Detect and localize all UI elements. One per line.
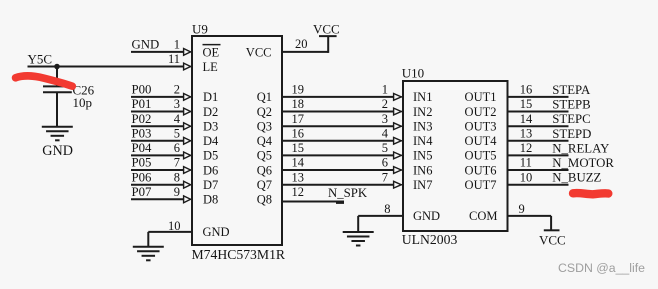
svg-text:15: 15 — [292, 141, 305, 155]
svg-text:4: 4 — [382, 126, 389, 140]
svg-text:GND: GND — [413, 209, 440, 223]
wire U9 pin 15 — [282, 154, 394, 156]
svg-text:10: 10 — [520, 170, 533, 184]
svg-text:D3: D3 — [203, 120, 218, 134]
U10 pin 7 arrow — [394, 181, 402, 188]
svg-text:N_RELAY: N_RELAY — [552, 141, 609, 155]
wire U10 pin 16 / net STEPA — [508, 96, 569, 98]
svg-text:GND: GND — [42, 143, 73, 159]
svg-text:D7: D7 — [203, 178, 218, 192]
U10 pin 5 arrow — [394, 152, 402, 159]
svg-text:6: 6 — [174, 141, 180, 155]
svg-text:IN5: IN5 — [413, 149, 432, 163]
svg-text:N_MOTOR: N_MOTOR — [552, 156, 614, 170]
svg-text:P06: P06 — [132, 170, 153, 184]
wire U9 pin 13 — [282, 184, 394, 186]
svg-text:9: 9 — [174, 185, 180, 199]
svg-text:5: 5 — [382, 141, 388, 155]
svg-text:Q1: Q1 — [257, 90, 272, 104]
svg-text:16: 16 — [520, 83, 533, 97]
capacitor C26 — [56, 67, 58, 86]
svg-text:D2: D2 — [203, 105, 218, 119]
svg-text:D8: D8 — [203, 193, 218, 207]
svg-text:17: 17 — [292, 112, 305, 126]
svg-text:12: 12 — [292, 185, 305, 199]
svg-text:14: 14 — [520, 112, 533, 126]
svg-text:8: 8 — [174, 170, 180, 184]
svg-text:P01: P01 — [132, 97, 152, 111]
red annotation scribble over Y5C/C26 — [16, 76, 73, 86]
svg-text:OUT3: OUT3 — [465, 120, 497, 134]
wire U9 pin 17 — [282, 125, 394, 127]
svg-text:11: 11 — [168, 52, 180, 66]
svg-text:D6: D6 — [203, 163, 218, 177]
svg-text:18: 18 — [292, 97, 305, 111]
svg-text:4: 4 — [174, 112, 181, 126]
wire U9 pin 14 — [282, 169, 394, 171]
svg-text:5: 5 — [174, 126, 180, 140]
svg-text:VCC: VCC — [539, 232, 566, 247]
svg-text:6: 6 — [382, 156, 388, 170]
svg-text:7: 7 — [382, 170, 388, 184]
ground (U10 pin 8) — [343, 231, 374, 233]
svg-text:20: 20 — [295, 37, 308, 51]
svg-text:1: 1 — [174, 37, 180, 51]
svg-text:11: 11 — [520, 156, 532, 170]
U10 pin 1 arrow — [394, 94, 402, 101]
wire U10 pin 14 / net STEPC — [508, 125, 569, 127]
svg-text:P00: P00 — [132, 83, 152, 97]
svg-text:IN4: IN4 — [413, 134, 433, 148]
svg-text:14: 14 — [292, 156, 305, 170]
svg-text:13: 13 — [520, 126, 533, 140]
svg-text:15: 15 — [520, 97, 533, 111]
svg-text:P03: P03 — [132, 126, 152, 140]
svg-text:9: 9 — [519, 202, 525, 216]
wire U9 pin 19 — [282, 96, 394, 98]
svg-text:7: 7 — [174, 156, 180, 170]
svg-text:Q2: Q2 — [257, 105, 272, 119]
svg-text:IN6: IN6 — [413, 163, 432, 177]
svg-text:LE: LE — [203, 60, 219, 74]
svg-text:D4: D4 — [203, 134, 219, 148]
svg-text:STEPC: STEPC — [552, 112, 590, 126]
svg-text:N_BUZZ: N_BUZZ — [552, 171, 601, 185]
wire U10 pin 11 / net N_MOTOR — [508, 169, 569, 171]
svg-text:19: 19 — [292, 83, 305, 97]
wire Y5C to U9 pin 11 — [28, 66, 184, 68]
svg-text:STEPB: STEPB — [552, 98, 590, 112]
svg-text:8: 8 — [384, 202, 390, 216]
svg-text:P05: P05 — [132, 156, 152, 170]
wire U10 pin 15 / net STEPB — [508, 111, 569, 113]
svg-text:OUT4: OUT4 — [465, 134, 498, 148]
svg-text:U10: U10 — [402, 65, 424, 80]
svg-text:Q6: Q6 — [257, 163, 272, 177]
svg-text:VCC: VCC — [313, 21, 340, 36]
svg-text:IN7: IN7 — [413, 178, 432, 192]
svg-text:OUT1: OUT1 — [465, 90, 497, 104]
svg-text:D1: D1 — [203, 90, 218, 104]
U10 pin 4 arrow — [394, 137, 402, 144]
svg-text:P07: P07 — [132, 185, 153, 199]
svg-text:P04: P04 — [132, 141, 153, 155]
svg-text:IN2: IN2 — [413, 105, 432, 119]
svg-text:Q7: Q7 — [257, 178, 272, 192]
junction on Y5C net — [54, 64, 60, 70]
svg-text:COM: COM — [469, 209, 497, 223]
svg-text:Y5C: Y5C — [28, 52, 53, 67]
svg-text:12: 12 — [520, 141, 533, 155]
svg-text:Q4: Q4 — [257, 134, 273, 148]
svg-text:2: 2 — [174, 83, 180, 97]
ground (U9 pin 10) — [133, 246, 164, 248]
svg-text:16: 16 — [292, 126, 305, 140]
power VCC (top) — [319, 35, 337, 37]
ground (C26) — [42, 126, 73, 128]
svg-text:STEPD: STEPD — [552, 127, 591, 141]
svg-text:M74HC573M1R: M74HC573M1R — [192, 247, 286, 262]
svg-text:Q3: Q3 — [257, 120, 272, 134]
red annotation scribble under N_BUZZ — [573, 193, 608, 194]
power VCC (bottom right) — [544, 229, 560, 231]
svg-text:OUT2: OUT2 — [465, 105, 497, 119]
svg-text:VCC: VCC — [246, 45, 272, 59]
svg-text:3: 3 — [174, 97, 180, 111]
svg-text:1: 1 — [382, 83, 388, 97]
svg-text:10: 10 — [168, 219, 181, 233]
svg-text:Q5: Q5 — [257, 149, 272, 163]
svg-text:GND: GND — [132, 37, 160, 51]
svg-text:D5: D5 — [203, 149, 218, 163]
svg-text:IN3: IN3 — [413, 120, 432, 134]
wire U10 pin 10 / net N_BUZZ — [508, 184, 569, 186]
svg-text:IN1: IN1 — [413, 90, 432, 104]
svg-text:3: 3 — [382, 112, 388, 126]
wire U10 pin 12 / net N_RELAY — [508, 154, 569, 156]
pin 1 wire — [131, 51, 184, 53]
svg-text:U9: U9 — [192, 21, 208, 36]
svg-text:Q8: Q8 — [257, 193, 272, 207]
svg-text:STEPA: STEPA — [552, 83, 591, 97]
svg-text:ULN2003: ULN2003 — [402, 232, 458, 247]
U10 pin 6 arrow — [394, 167, 402, 174]
svg-text:GND: GND — [203, 225, 230, 239]
wire U9 pin 18 — [282, 111, 394, 113]
svg-text:OUT7: OUT7 — [465, 178, 497, 192]
svg-text:13: 13 — [292, 170, 305, 184]
svg-text:P02: P02 — [132, 112, 152, 126]
svg-text:2: 2 — [382, 97, 388, 111]
wire U10 pin 13 / net STEPD — [508, 140, 569, 142]
U10 pin 2 arrow — [394, 108, 402, 115]
svg-text:OUT5: OUT5 — [465, 149, 497, 163]
svg-text:OUT6: OUT6 — [465, 163, 497, 177]
svg-text:10p: 10p — [73, 95, 93, 110]
svg-text:OE: OE — [203, 45, 220, 59]
svg-text:CSDN @a__life: CSDN @a__life — [558, 261, 645, 275]
U10 pin 3 arrow — [394, 123, 402, 130]
svg-text:N_SPK: N_SPK — [328, 186, 368, 200]
wire U9 pin 16 — [282, 140, 394, 142]
